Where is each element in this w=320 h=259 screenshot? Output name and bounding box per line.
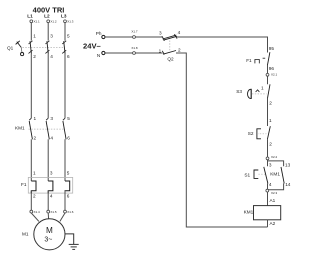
svg-text:3: 3 xyxy=(50,34,53,39)
terminal X1.6 xyxy=(64,210,74,214)
wire Q1 to KM1 phase3 xyxy=(64,54,66,119)
F1 heater element pole 3 pins 5-6 xyxy=(65,170,70,198)
wire F1 to X1.5 xyxy=(47,191,49,210)
svg-text:3: 3 xyxy=(50,116,53,121)
svg-text:S1: S1 xyxy=(244,173,250,178)
svg-text:1: 1 xyxy=(269,118,272,123)
wire F1 to X1.4 xyxy=(30,191,32,210)
wire Q1 to KM1 phase2 xyxy=(47,54,49,119)
svg-text:L1: L1 xyxy=(27,13,33,18)
KM1 pole 3-4 xyxy=(46,116,53,140)
svg-text:4: 4 xyxy=(269,182,272,187)
Q2 mechanical dashed link xyxy=(169,41,171,51)
wire X1.6 to motor xyxy=(60,213,65,221)
wire Q2 pole2 to N return xyxy=(176,53,268,227)
svg-text:4: 4 xyxy=(50,136,53,141)
svg-text:2: 2 xyxy=(269,100,272,105)
svg-text:X1.5: X1.5 xyxy=(50,210,57,214)
svg-text:X1.3: X1.3 xyxy=(67,19,74,23)
start button S1 pins 3-4 xyxy=(244,163,272,187)
wire X1.5 to motor xyxy=(47,213,49,219)
KM1 pole 1-2 xyxy=(29,116,36,140)
svg-text:3: 3 xyxy=(159,31,162,36)
ground xyxy=(65,234,79,250)
terminal X1.8 xyxy=(131,46,138,55)
wire KM1 to F1 phase1 xyxy=(30,139,32,181)
wire L1 to Q1 xyxy=(30,23,32,41)
svg-text:A1: A1 xyxy=(270,198,276,203)
terminal L1 / X1.1 xyxy=(27,13,40,23)
svg-text:2: 2 xyxy=(33,54,36,59)
wire X2.3 to coil xyxy=(267,192,269,206)
wire L2 to Q1 xyxy=(47,23,49,41)
wire KM1 to F1 phase3 xyxy=(64,139,66,181)
Q2 pole 1-2 xyxy=(159,48,181,55)
KM1 aux contact 13-14 xyxy=(270,163,291,187)
motor M1 xyxy=(22,219,65,250)
svg-text:6: 6 xyxy=(67,136,70,141)
svg-text:1: 1 xyxy=(159,48,162,53)
svg-text:KM1: KM1 xyxy=(270,171,280,176)
KM1 pole 5-6 xyxy=(63,116,70,140)
svg-text:Ph: Ph xyxy=(96,31,102,36)
svg-text:95: 95 xyxy=(269,46,275,51)
svg-text:13: 13 xyxy=(285,163,291,168)
svg-text:2: 2 xyxy=(34,136,37,141)
terminal X2.3 xyxy=(266,189,278,195)
wire S3 to S2 xyxy=(267,99,269,126)
svg-text:1: 1 xyxy=(33,170,36,175)
branch rejoin wire xyxy=(268,183,284,189)
svg-text:X1.8: X1.8 xyxy=(131,46,138,50)
wire X1.4 to motor xyxy=(31,213,39,221)
svg-text:N: N xyxy=(97,53,100,58)
svg-text:3: 3 xyxy=(50,170,53,175)
terminal L2 / X1.2 xyxy=(44,13,57,23)
F1 NC contact 95-96 xyxy=(246,46,274,71)
svg-text:5: 5 xyxy=(67,116,70,121)
svg-text:F1: F1 xyxy=(21,182,27,187)
svg-text:Q1: Q1 xyxy=(7,45,14,50)
wire S2 to X2.2 xyxy=(267,139,269,157)
wire Q2 pole4 to right column xyxy=(177,37,268,53)
svg-text:L2: L2 xyxy=(44,13,50,18)
svg-text:2: 2 xyxy=(269,141,272,146)
wire Q1 to KM1 phase1 xyxy=(30,54,32,119)
svg-text:L3: L3 xyxy=(61,13,67,18)
wire L3 to Q1 xyxy=(64,23,66,41)
terminal X1.5 xyxy=(47,210,57,214)
KM1 mechanical dashed link xyxy=(29,128,65,130)
svg-text:6: 6 xyxy=(67,194,70,199)
coil KM1 xyxy=(244,206,281,220)
svg-text:M: M xyxy=(46,226,53,235)
svg-text:KM1: KM1 xyxy=(15,126,25,131)
F1 heater element pole 1 pins 1-2 xyxy=(31,170,36,198)
branch wire to KM1 aux xyxy=(268,161,284,166)
wire Ph to Q2 xyxy=(105,36,163,38)
terminal L3 / X1.3 xyxy=(61,13,74,23)
svg-text:F1: F1 xyxy=(246,58,252,63)
stop button S2 xyxy=(248,118,272,146)
wire coil to N return xyxy=(267,220,269,227)
terminal N xyxy=(97,51,105,57)
svg-text:KM1: KM1 xyxy=(244,210,254,215)
svg-text:24V–: 24V– xyxy=(83,41,101,50)
svg-text:3: 3 xyxy=(269,163,272,168)
F1 heater element pole 2 pins 3-4 xyxy=(48,170,53,198)
Q1 pole 5-6 xyxy=(62,34,70,59)
svg-text:X1.7: X1.7 xyxy=(131,30,138,34)
terminal Ph xyxy=(96,31,105,39)
svg-text:5: 5 xyxy=(67,170,70,175)
svg-text:6: 6 xyxy=(67,54,70,59)
terminal X1.7 xyxy=(131,30,138,39)
wire X2.1 to S3 xyxy=(267,76,269,84)
terminal X2.2 xyxy=(266,155,277,160)
svg-text:X1.1: X1.1 xyxy=(34,19,41,23)
wire F1 to X1.6 xyxy=(64,191,66,210)
wire X2.2 to S1 xyxy=(267,160,269,167)
svg-text:2: 2 xyxy=(33,194,36,199)
emergency stop S3 xyxy=(236,84,272,105)
terminal X1.4 xyxy=(30,210,40,214)
svg-text:S3: S3 xyxy=(236,89,242,94)
svg-text:14: 14 xyxy=(285,182,291,187)
svg-text:X2.2: X2.2 xyxy=(271,155,278,159)
svg-text:S2: S2 xyxy=(248,131,254,136)
Q2 pole 3-4 xyxy=(159,30,181,41)
wire S1 to X2.3 xyxy=(267,184,269,190)
svg-text:1: 1 xyxy=(34,116,37,121)
Q1 mechanical dashed link xyxy=(23,47,65,49)
svg-text:X2.3: X2.3 xyxy=(271,191,278,195)
svg-text:4: 4 xyxy=(178,30,181,35)
svg-text:4: 4 xyxy=(50,54,53,59)
svg-text:X2.1: X2.1 xyxy=(271,73,278,77)
svg-text:A2: A2 xyxy=(270,221,276,226)
svg-text:3~: 3~ xyxy=(44,236,52,243)
svg-text:X1.2: X1.2 xyxy=(50,19,57,23)
wire KM1 to F1 phase2 xyxy=(47,139,49,181)
Q1 pole 1-2 xyxy=(29,34,37,59)
svg-text:M1: M1 xyxy=(22,232,29,237)
svg-text:96: 96 xyxy=(269,66,275,71)
wire N to Q2 xyxy=(105,52,163,54)
svg-text:X1.6: X1.6 xyxy=(67,210,74,214)
Q1 handle xyxy=(16,41,24,56)
wire 96 to X2.1 xyxy=(267,65,269,73)
svg-text:2: 2 xyxy=(178,48,181,53)
svg-text:X1.4: X1.4 xyxy=(34,210,41,214)
svg-text:5: 5 xyxy=(67,34,70,39)
svg-text:1: 1 xyxy=(33,34,36,39)
F1 outline box xyxy=(28,177,72,193)
svg-text:4: 4 xyxy=(50,194,53,199)
Q1 pole 3-4 xyxy=(45,34,53,59)
terminal X2.1 xyxy=(266,73,277,77)
svg-text:Q2: Q2 xyxy=(167,57,174,62)
svg-text:1: 1 xyxy=(261,86,264,91)
